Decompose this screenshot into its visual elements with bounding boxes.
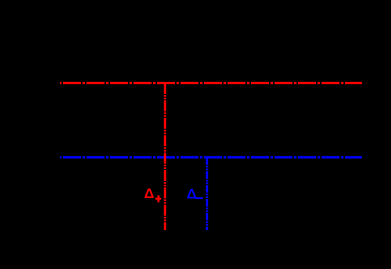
svg-text:Δ: Δ	[187, 185, 197, 201]
svg-text:Δ: Δ	[144, 185, 154, 201]
